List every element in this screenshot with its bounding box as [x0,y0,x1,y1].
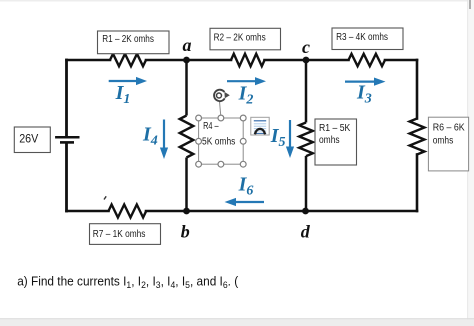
svg-text:I2: I2 [238,83,254,108]
label box R7 - 1K omhs [90,224,161,245]
label box R3 - 4K omhs [332,28,403,50]
battery V1 26V [55,137,79,142]
svg-text:omhs: omhs [319,135,340,146]
current arrow I1 [109,77,147,107]
wire right side [416,60,419,211]
svg-text:I1: I1 [115,82,131,107]
current arrow I5 [270,120,294,158]
svg-text:a: a [183,35,192,55]
label box 26V [14,127,50,153]
svg-text:R2 – 2K omhs: R2 – 2K omhs [214,33,266,44]
svg-text:26V: 26V [19,132,38,146]
current arrow I6 [225,174,265,207]
node c [302,37,310,63]
top edge band [0,0,474,2]
svg-text:I5: I5 [270,125,286,150]
svg-text:I3: I3 [356,82,372,107]
svg-text:R3 – 4K omhs: R3 – 4K omhs [336,32,388,43]
svg-text:R1 – 5K: R1 – 5K [319,123,351,134]
current arrow I4 [142,120,168,160]
svg-text:I4: I4 [142,124,158,149]
resistor R4 (vertical on a-b branch) [180,116,194,158]
selection handles (8) [196,115,246,167]
resistor R6 (right side vertical) [410,119,425,155]
wire branch c-d [305,60,308,211]
resistor R1 [110,54,146,66]
resistor R3 [349,54,386,66]
svg-text:I6: I6 [238,174,254,199]
svg-text:a) Find the currents I1, I2, I: a) Find the currents I1, I2, I3, I4, I5,… [17,274,239,292]
selection rectangle around R4 text box [199,118,244,164]
node a [183,35,192,63]
wire bottom side [67,210,418,213]
rotation handle [214,90,230,115]
resistor R5 (vertical on c-d branch) [299,123,313,157]
svg-text:R1 – 2K omhs: R1 – 2K omhs [102,34,154,45]
current arrow I3 [345,78,386,107]
svg-text:c: c [302,37,310,57]
current arrow I2 [227,77,266,107]
wire top side [67,59,418,62]
node d [301,208,311,242]
node b [181,208,190,242]
svg-text:R6 – 6K: R6 – 6K [433,123,465,134]
label box R6 - 6K omhs [428,117,468,171]
right edge strip [468,0,474,326]
label box R1 - 2K omhs [98,31,170,54]
resistor R2 [231,54,265,66]
svg-text:d: d [301,222,311,242]
svg-text:R7 – 1K omhs: R7 – 1K omhs [93,229,146,240]
stray tick mark [104,196,106,199]
svg-text:5K omhs: 5K omhs [202,136,235,147]
wire left side [65,60,68,211]
svg-text:R4 –: R4 – [203,121,219,132]
svg-text:omhs: omhs [433,136,454,147]
autofit smart tag icon [251,117,269,135]
R4 text box label [202,121,235,148]
label box R1 - 5K omhs (R5) [315,119,357,165]
bottom gray band [0,319,474,326]
svg-text:b: b [181,222,190,242]
label box R2 - 2K omhs [210,28,281,50]
resistor R7 (bottom) [109,205,147,218]
wire branch a-b [185,60,188,211]
